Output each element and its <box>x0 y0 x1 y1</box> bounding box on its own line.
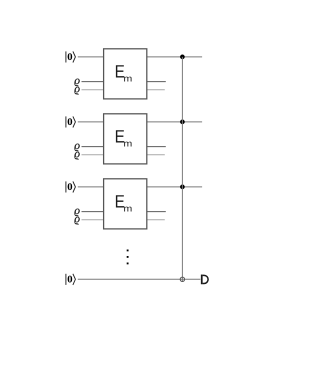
rho label 1b <box>75 87 80 95</box>
xor target on ancilla <box>180 277 184 281</box>
wire q2 right to bus <box>147 121 202 123</box>
vertical bus wire <box>181 57 183 282</box>
ket |0> ancilla <box>66 274 76 285</box>
rho label 2b <box>75 152 80 160</box>
gate label E <box>116 195 124 207</box>
ket |0> qubit 3 <box>66 181 76 192</box>
block 2: qubit register <box>66 114 202 164</box>
stub right 3b <box>147 219 165 221</box>
wire rho1a <box>82 81 104 83</box>
wire ancilla <box>78 278 201 280</box>
block 3: qubit register <box>66 179 202 229</box>
wire rho3b <box>82 219 104 221</box>
gate label subscript m <box>124 77 131 82</box>
stub right 2a <box>147 146 166 148</box>
rho label 2a <box>75 144 80 152</box>
wire rho2a <box>82 146 104 148</box>
gate label E <box>116 65 124 77</box>
rho label 1a <box>75 79 80 87</box>
junction dot node 2 <box>180 120 185 125</box>
rho label 3a <box>75 209 80 217</box>
block 1: qubit register <box>66 49 202 99</box>
stub right 3a <box>147 211 166 213</box>
rho label 3b <box>75 217 80 225</box>
detector D <box>202 275 208 285</box>
junction dot node 1 <box>180 55 185 60</box>
stub right 1b <box>147 89 165 91</box>
stub right 1a <box>147 81 166 83</box>
ket |0> qubit 1 <box>66 51 76 62</box>
stub right 2b <box>147 154 165 156</box>
gate label E <box>116 130 124 142</box>
gate box Em 2 <box>104 114 147 164</box>
gate label subscript m <box>124 142 131 147</box>
wire q3 right to bus <box>147 186 202 188</box>
wire q2 left <box>78 121 104 123</box>
wire rho3a <box>82 211 104 213</box>
ket |0> qubit 2 <box>66 116 76 127</box>
wire q1 right to bus <box>147 56 202 58</box>
junction dot node 3 <box>180 185 185 190</box>
gate box Em 3 <box>104 179 147 229</box>
gate box Em 1 <box>104 49 147 99</box>
vertical ellipsis <box>127 250 129 265</box>
wire q1 left <box>78 56 104 58</box>
wire q3 left <box>78 186 104 188</box>
gate label subscript m <box>124 207 131 212</box>
wire rho2b <box>82 154 104 156</box>
wire rho1b <box>82 89 104 91</box>
